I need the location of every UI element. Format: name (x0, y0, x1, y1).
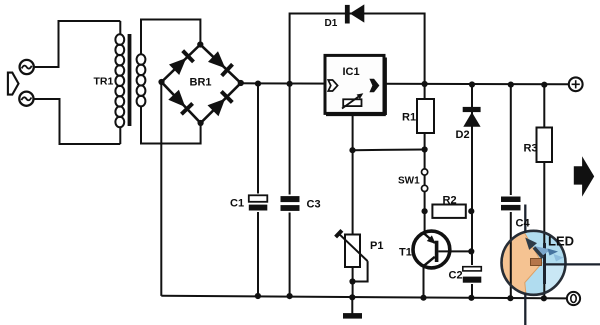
svg-text:C4: C4 (516, 218, 531, 230)
svg-text:BR1: BR1 (190, 77, 212, 89)
svg-text:TR1: TR1 (94, 76, 114, 88)
svg-text:R1: R1 (402, 112, 416, 124)
svg-text:D1: D1 (325, 18, 338, 29)
svg-text:T1: T1 (399, 247, 412, 259)
svg-text:C2: C2 (449, 270, 463, 282)
svg-text:C1: C1 (230, 198, 244, 210)
svg-text:SW1: SW1 (398, 176, 420, 187)
svg-text:D2: D2 (456, 129, 470, 141)
svg-text:R2: R2 (443, 195, 457, 207)
svg-text:R3: R3 (524, 143, 538, 155)
svg-text:P1: P1 (370, 240, 383, 252)
svg-text:IC1: IC1 (343, 66, 360, 78)
svg-text:C3: C3 (307, 199, 321, 211)
svg-text:LED: LED (548, 234, 574, 249)
